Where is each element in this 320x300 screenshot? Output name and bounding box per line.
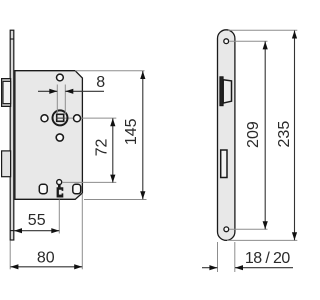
svg-text:18 / 20: 18 / 20	[245, 250, 290, 267]
WC follower circle	[57, 180, 62, 185]
dim 145 line	[142, 71, 144, 199]
WC follower neck	[58, 185, 61, 188]
svg-text:145: 145	[123, 118, 140, 145]
dim 8 line	[38, 90, 57, 92]
dim 235 extension lines	[228, 29, 297, 31]
front faceplate	[218, 30, 235, 241]
right oval hole	[73, 184, 81, 194]
front top screw hole	[224, 39, 229, 44]
svg-text:72: 72	[93, 139, 110, 157]
right small circle	[74, 115, 81, 122]
dim 55 extension line	[58, 200, 60, 234]
left small circle	[41, 115, 48, 122]
svg-text:235: 235	[276, 121, 293, 148]
dim 8 extension lines	[56, 85, 58, 114]
spindle square hole	[57, 114, 64, 121]
dim 55 line	[14, 230, 59, 232]
dim 235 line	[294, 31, 296, 241]
extension line from spindle center (72 top)	[56, 117, 116, 119]
bottom hole	[56, 134, 63, 141]
svg-text:55: 55	[28, 212, 46, 229]
front WC opening	[221, 150, 227, 178]
lock case body	[15, 71, 83, 200]
top hole	[57, 74, 64, 81]
dim 72 extension line bottom	[63, 181, 117, 183]
front latch face	[220, 77, 232, 106]
dim 72 line	[112, 118, 114, 182]
dim 80 line	[10, 266, 82, 268]
spindle follower circle	[53, 110, 68, 125]
left oval hole	[39, 184, 47, 193]
dim 209 line	[264, 41, 266, 229]
svg-text:8: 8	[96, 74, 105, 91]
faceplate side strip	[10, 30, 14, 240]
dim 80 extension lines	[9, 241, 11, 270]
dim 209 extension lines	[230, 40, 268, 42]
deadbolt side view	[2, 151, 11, 177]
dim 18/20 extension lines	[217, 242, 219, 272]
front bottom screw hole	[224, 227, 229, 232]
dim 18/20 line	[202, 267, 217, 269]
dim 145 extension lines	[75, 70, 145, 72]
latch bolt side view	[2, 79, 11, 107]
svg-text:80: 80	[37, 250, 55, 267]
WC follower slot	[57, 187, 64, 197]
svg-text:209: 209	[245, 121, 262, 148]
